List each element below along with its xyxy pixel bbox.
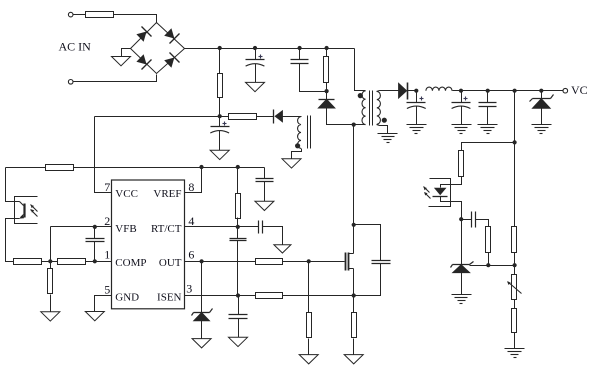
ground (Z2, earth) <box>532 125 552 134</box>
text pin 6 <box>188 247 194 261</box>
wire DC rail <box>185 48 355 50</box>
capacitor C3 (VCC) <box>210 127 229 134</box>
svg-text:GND: GND <box>115 292 139 304</box>
text pin 4 <box>188 214 194 228</box>
svg-text:3: 3 <box>186 282 192 296</box>
text U1 VCC <box>115 188 138 200</box>
wire VCC node line <box>95 116 220 118</box>
wire <box>255 49 257 60</box>
wire <box>416 91 418 103</box>
wire RT vertical <box>237 168 239 194</box>
ground (Z1) <box>192 339 211 348</box>
capacitor C9 (snubber) <box>372 261 391 264</box>
terminal VC <box>563 88 568 93</box>
wire <box>541 91 543 99</box>
resistor R13 (current sense) <box>352 313 357 338</box>
wire <box>353 296 355 313</box>
ground (R8) <box>41 312 60 321</box>
svg-text:VC: VC <box>571 83 588 97</box>
node T1 secondary phase dot <box>382 118 387 123</box>
ground (C3) <box>210 150 229 159</box>
text VC <box>571 83 588 97</box>
node out-divider <box>513 89 517 93</box>
terminal AC input top <box>68 12 73 17</box>
resistor R9 (RT) <box>236 194 241 219</box>
node out-c11 <box>459 89 463 93</box>
fuse resistor R1 <box>86 12 114 18</box>
wire <box>237 218 239 227</box>
svg-text:AC IN: AC IN <box>59 40 92 54</box>
resistor R15 (feedback comp) <box>486 227 491 253</box>
wire VFB line <box>51 226 112 228</box>
wire fb tap to R14 <box>462 143 515 151</box>
wire secondary bottom <box>377 125 388 134</box>
terminal AC input bottom <box>68 80 73 85</box>
optocoupler U2 bracket <box>15 197 38 224</box>
capacitor C13 (feedback comp) <box>472 212 476 228</box>
bridge diode D1 (top-left edge) <box>136 27 151 42</box>
wire aux bottom <box>292 149 302 159</box>
wire <box>461 273 463 295</box>
capacitor C10 (output) <box>407 103 426 109</box>
text U1 VFB <box>115 223 136 235</box>
node out-c12 <box>486 89 490 93</box>
transistor Q1 MOSFET <box>346 253 354 271</box>
capacitor C11 plus <box>464 97 468 101</box>
capacitor C5 (VFB-COMP) <box>86 239 105 242</box>
capacitor C1 (bulk) plus <box>259 55 263 59</box>
node out-z2 <box>539 89 543 93</box>
svg-text:OUT: OUT <box>159 257 182 269</box>
trimmer arrow <box>507 282 521 294</box>
ground (aux winding) <box>282 159 301 168</box>
wire <box>308 339 310 355</box>
wire <box>487 91 489 103</box>
wire pin4 line <box>185 226 259 228</box>
node gate-pulldown <box>307 259 311 263</box>
wire <box>238 296 240 315</box>
wire <box>255 64 257 83</box>
svg-text:2: 2 <box>104 214 110 228</box>
text pin 8 <box>188 180 194 194</box>
svg-text:8: 8 <box>188 180 194 194</box>
ground (secondary, earth) <box>378 134 398 143</box>
text pin 2 <box>104 214 110 228</box>
wire <box>257 116 274 118</box>
wire <box>541 109 543 125</box>
ground (C11, earth) <box>452 125 472 134</box>
wire <box>408 90 417 92</box>
node out-zener <box>200 259 204 263</box>
wire <box>94 242 96 262</box>
svg-text:7: 7 <box>104 180 110 194</box>
wire <box>514 300 516 309</box>
transformer T1 primary winding <box>362 91 366 125</box>
wire <box>50 295 52 312</box>
bridge diode D2 (top-right edge) <box>164 28 179 43</box>
resistor R18 (divider lower) <box>512 309 517 333</box>
wire <box>238 319 240 338</box>
wire <box>461 107 463 125</box>
resistor R12 (ISEN filter) <box>256 293 283 299</box>
wire <box>219 117 221 127</box>
text pin 3 <box>186 282 192 296</box>
wire <box>219 49 221 74</box>
optocoupler U2 LED <box>433 188 448 197</box>
text pin 5 <box>104 283 110 297</box>
ground (C10, earth) <box>407 125 427 134</box>
capacitor C1 (bulk) <box>246 60 265 67</box>
node z3-r15 <box>486 263 490 267</box>
text pin 7 <box>104 180 110 194</box>
wire <box>487 107 489 125</box>
resistor R3 (clamp) <box>324 57 329 83</box>
svg-text:RT/CT: RT/CT <box>151 223 182 235</box>
wire <box>326 83 328 100</box>
diode D6 (output rectifier) <box>398 82 407 99</box>
wire <box>50 262 52 269</box>
optocoupler U2 light arrows <box>31 205 38 217</box>
wire opto collector <box>6 168 20 202</box>
text AC IN <box>59 40 92 54</box>
resistor R4 (aux) <box>229 114 257 120</box>
wire <box>308 262 310 313</box>
node rail-clampR <box>325 46 329 50</box>
inductor L1 <box>426 87 452 91</box>
bridge diode D3 (bottom-left edge) <box>136 54 151 69</box>
wire pin6 line <box>185 261 256 263</box>
wire <box>514 333 516 349</box>
wire VREF rail <box>6 167 46 169</box>
wire output rail <box>453 90 564 92</box>
bridge rectifier BR1 diamond wires <box>131 23 185 74</box>
wire <box>74 167 265 169</box>
transformer T1 secondary winding <box>377 91 381 124</box>
wire <box>283 295 354 297</box>
wire <box>299 49 301 60</box>
node drain-snubber <box>352 223 356 227</box>
wire pin5 to ground <box>95 296 112 312</box>
wire VREF to C4 <box>264 168 266 179</box>
ground (pin5) <box>85 312 104 321</box>
ground (R13) <box>344 355 363 364</box>
wire <box>416 107 418 125</box>
node aux phase dot <box>295 143 300 148</box>
ground (C4) <box>255 201 274 210</box>
wire pin8 to VREF <box>185 168 202 193</box>
capacitor C8 (ISEN filter) <box>229 315 248 319</box>
resistor R7 <box>58 259 86 265</box>
resistor R6 <box>14 259 42 265</box>
wire snubber bottom <box>354 264 381 296</box>
svg-text:VREF: VREF <box>153 188 181 200</box>
resistor R10 (gate) <box>256 259 283 265</box>
wire pin3 line <box>185 295 256 297</box>
resistor R14 (LED feed) <box>459 151 464 177</box>
resistor R2 (VCC dropper) <box>218 74 223 98</box>
wire <box>264 182 266 202</box>
ground (R11) <box>299 355 318 364</box>
node source-isen <box>352 293 356 297</box>
capacitor C4 (VREF) <box>256 179 274 182</box>
zener Z3 (reference) <box>451 262 474 273</box>
capacitor C7 (pin4 to ground) <box>259 221 263 234</box>
wire <box>326 49 328 57</box>
text U1 COMP <box>115 257 146 269</box>
wire <box>201 321 203 339</box>
op-amp U1 PWM controller box <box>112 180 185 309</box>
node rail-C1 <box>253 46 257 50</box>
node comp-left <box>48 259 52 263</box>
transformer T1 core <box>370 91 373 126</box>
ground (C8) <box>229 337 248 346</box>
bridge diode D4 (bottom-right edge) <box>164 53 179 68</box>
resistor R11 (gate pulldown) <box>307 313 312 338</box>
svg-text:6: 6 <box>188 247 194 261</box>
text U1 VREF <box>153 188 181 200</box>
ground (C12, earth) <box>478 125 498 134</box>
diode D7 (aux rectifier) <box>274 110 283 124</box>
wire <box>237 241 239 296</box>
wire <box>461 91 463 103</box>
wire <box>237 227 239 239</box>
wire secondary top to D6 <box>377 91 399 92</box>
node primary-drain junction <box>352 123 356 127</box>
node z3-divider <box>513 263 517 267</box>
optocoupler U2 LED arrows <box>424 187 431 199</box>
capacitor C12 (output) <box>479 103 497 107</box>
wire <box>353 339 355 355</box>
wire LED cathode <box>441 197 462 220</box>
svg-text:VCC: VCC <box>115 188 138 200</box>
wire <box>441 177 462 188</box>
node VCC <box>218 114 222 118</box>
node clamp junction <box>325 89 329 93</box>
wire opto emitter <box>6 219 20 262</box>
wire <box>461 220 463 265</box>
svg-text:COMP: COMP <box>115 257 146 269</box>
wire primary bottom <box>354 124 366 126</box>
node led-zener <box>459 217 463 221</box>
wire divider top <box>514 91 516 227</box>
node isen-filter <box>236 293 240 297</box>
svg-text:1: 1 <box>104 247 110 261</box>
wire <box>300 64 327 92</box>
wire <box>42 261 58 263</box>
text U1 RT/CT <box>151 223 182 235</box>
wire <box>327 109 354 125</box>
wire <box>514 253 516 275</box>
capacitor C2 (clamp) <box>291 60 309 64</box>
wire snubber top <box>354 225 381 261</box>
wire <box>263 227 283 245</box>
wire <box>488 253 490 266</box>
node rail-clampC <box>298 46 302 50</box>
ground (C7) <box>274 245 291 253</box>
wire <box>94 227 96 239</box>
wire <box>114 15 157 24</box>
node VREF-RT <box>236 165 240 169</box>
node out-c10 <box>414 89 418 93</box>
svg-text:4: 4 <box>188 214 194 228</box>
wire comp cap branch <box>462 219 472 221</box>
transformer T1 aux winding <box>298 117 301 149</box>
wire <box>283 261 345 263</box>
wire bridge negative to ground <box>122 49 131 57</box>
zener Z1 (gate protect) <box>192 309 213 321</box>
wire rail to primary top <box>355 49 366 91</box>
capacitor C3 (VCC) plus <box>223 122 227 126</box>
text U1 OUT <box>159 257 182 269</box>
wire <box>74 14 86 16</box>
wire <box>50 227 52 262</box>
svg-text:ISEN: ISEN <box>157 292 182 304</box>
wire source <box>353 269 355 296</box>
node vfb-cap <box>93 225 97 229</box>
text pin 1 <box>104 247 110 261</box>
optocoupler U2 phototransistor <box>19 202 24 219</box>
wire <box>283 116 302 118</box>
svg-text:5: 5 <box>104 283 110 297</box>
ground (bridge) <box>112 57 131 66</box>
node comp-right <box>93 259 97 263</box>
capacitor C6 (CT) <box>230 239 247 241</box>
wire zener top rail <box>470 265 515 267</box>
resistor R16 (divider upper) <box>512 227 517 253</box>
wire <box>476 220 489 227</box>
node rtct <box>236 225 240 229</box>
svg-text:VFB: VFB <box>115 223 136 235</box>
resistor R8 <box>48 269 53 294</box>
capacitor C11 (output) <box>452 103 471 109</box>
zener Z2 (output clamp) <box>530 95 554 109</box>
wire zener Z1 lead <box>201 262 203 313</box>
wire VCC feed down to pin7 <box>95 117 112 193</box>
optocoupler U2 LED bracket <box>429 179 451 207</box>
wire <box>86 261 112 263</box>
node VREF-pin8 <box>199 165 203 169</box>
node T1 primary phase dot <box>358 93 363 98</box>
capacitor C10 plus <box>420 97 424 101</box>
transformer T1 aux core <box>308 116 311 149</box>
resistor R5 (opto collector pullup) <box>46 165 74 171</box>
wire <box>74 75 157 82</box>
wire <box>219 98 221 117</box>
wire <box>219 131 221 151</box>
node rail-R2 <box>218 46 222 50</box>
ground (C1) <box>246 82 265 91</box>
ground (Z3, earth) <box>452 295 472 304</box>
diode D5 (clamp) <box>318 99 334 108</box>
ground (divider, earth) <box>505 349 525 358</box>
wire drain <box>353 125 355 254</box>
resistor R17 (trimmer) <box>512 275 517 300</box>
text U1 GND <box>115 292 139 304</box>
text U1 ISEN <box>157 292 182 304</box>
wire <box>220 116 229 118</box>
node fb-tap <box>513 140 517 144</box>
